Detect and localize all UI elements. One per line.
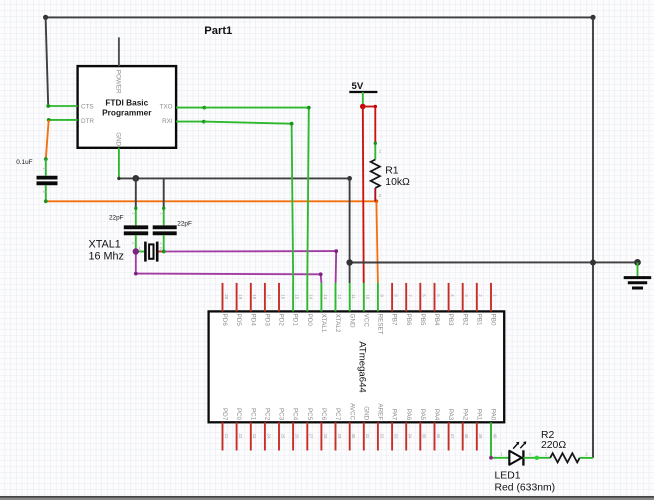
- svg-text:PB0: PB0: [490, 314, 497, 326]
- svg-text:16: 16: [280, 294, 285, 299]
- svg-text:PD0: PD0: [306, 314, 313, 327]
- pin 36 PA4 (bottom): [433, 409, 441, 451]
- pin 10 VCC (top): [362, 283, 370, 327]
- svg-text:PD3: PD3: [264, 314, 271, 327]
- svg-text:34: 34: [408, 434, 413, 439]
- pin 14 PD0 (top): [306, 283, 314, 326]
- wire orange DTR/RESET net rail: [44, 199, 378, 203]
- svg-text:PC6: PC6: [320, 408, 327, 421]
- capacitor C2 22pF: [124, 207, 148, 252]
- svg-text:ATmega644: ATmega644: [357, 341, 368, 393]
- svg-text:36: 36: [436, 434, 441, 439]
- label XTAL1 16 Mhz: [89, 239, 124, 263]
- wire LED1 to R2: [523, 456, 550, 460]
- pin GND leg: [118, 148, 120, 179]
- svg-text:PA2: PA2: [461, 409, 468, 421]
- svg-text:PD2: PD2: [278, 314, 285, 327]
- pin 6 PB5 (top): [419, 283, 427, 326]
- svg-text:PA3: PA3: [447, 409, 454, 421]
- svg-text:26: 26: [295, 434, 300, 439]
- pin 24 PC2 (bottom): [264, 408, 272, 451]
- svg-text:37: 37: [450, 434, 455, 439]
- svg-text:PB7: PB7: [391, 314, 398, 326]
- svg-text:31: 31: [365, 434, 370, 439]
- svg-text:10: 10: [365, 294, 370, 299]
- label LED1 Red (633nm): [495, 471, 556, 494]
- pin 39 PA1 (bottom): [475, 409, 483, 451]
- svg-text:PC4: PC4: [292, 408, 299, 421]
- pin 28 PC6 (bottom): [320, 408, 328, 451]
- pin 23 PC1 (bottom): [249, 408, 257, 451]
- svg-text:PA7: PA7: [391, 409, 398, 421]
- svg-text:PC3: PC3: [278, 408, 285, 421]
- pin 38 PA2 (bottom): [461, 409, 469, 451]
- wire crystal pin2 to XTAL2: [162, 249, 338, 283]
- pin 5 PB4 (top): [433, 283, 441, 326]
- svg-text:15: 15: [295, 294, 300, 299]
- svg-text:R1: R1: [385, 166, 399, 177]
- svg-text:22pF: 22pF: [109, 214, 124, 221]
- svg-text:19: 19: [238, 294, 243, 299]
- resistor R2 220: [545, 452, 589, 463]
- wire CTS vertical drop: [46, 17, 49, 106]
- svg-text:17: 17: [266, 294, 271, 299]
- pin 30 AVCC (bottom): [348, 403, 356, 450]
- pin 21 PD7 (bottom): [221, 408, 229, 451]
- IC U2 ATmega644: [209, 311, 505, 422]
- resistor R1 10k: [371, 142, 382, 202]
- pin 12 XTAL2 (top): [334, 283, 342, 333]
- svg-text:FTDI Basic: FTDI Basic: [105, 97, 148, 107]
- svg-text:18: 18: [252, 294, 257, 299]
- svg-text:35: 35: [422, 434, 427, 439]
- svg-text:XTAL2: XTAL2: [334, 314, 341, 333]
- svg-text:PD7: PD7: [221, 408, 228, 421]
- node 5V junction: [360, 104, 366, 110]
- svg-text:RESET: RESET: [377, 314, 384, 335]
- svg-text:10kΩ: 10kΩ: [385, 177, 410, 188]
- svg-text:33: 33: [394, 434, 399, 439]
- svg-text:PC1: PC1: [249, 408, 256, 421]
- svg-text:GND: GND: [115, 132, 122, 146]
- pin CTS leg: [46, 104, 77, 108]
- pin 17 PD3 (top): [264, 283, 272, 326]
- svg-text:PB4: PB4: [433, 314, 440, 326]
- pin 16 PD2 (top): [278, 283, 286, 326]
- svg-text:PB5: PB5: [419, 314, 426, 326]
- label R2 220: [541, 430, 566, 451]
- pin RXI leg: [176, 120, 206, 124]
- svg-text:XTAL1: XTAL1: [89, 239, 121, 251]
- pin 7 PB6 (top): [405, 283, 413, 326]
- pin 2 PB1 (top): [475, 283, 483, 326]
- pin 8 PB7 (top): [391, 283, 399, 326]
- svg-text:13: 13: [323, 294, 328, 299]
- pin 9 RESET (top): [377, 283, 385, 335]
- wire ground rail to ground symbol: [346, 259, 640, 266]
- svg-text:27: 27: [309, 434, 314, 439]
- svg-text:PC7: PC7: [334, 408, 341, 421]
- capacitor C3 22pF: [153, 207, 177, 252]
- label R1 10k: [385, 166, 410, 188]
- svg-text:CTS: CTS: [81, 104, 94, 111]
- wire TXO to PD0: [204, 106, 310, 283]
- svg-text:220Ω: 220Ω: [541, 440, 566, 451]
- pin 26 PC4 (bottom): [292, 408, 300, 451]
- svg-text:40: 40: [492, 434, 497, 439]
- svg-text:30: 30: [351, 434, 356, 439]
- svg-text:PA6: PA6: [405, 409, 412, 421]
- svg-text:PC2: PC2: [264, 408, 271, 421]
- svg-text:20: 20: [224, 294, 229, 299]
- svg-text:PD5: PD5: [235, 314, 242, 327]
- svg-text:DTR: DTR: [81, 118, 94, 125]
- scrollbar bottom: [0, 496, 654, 500]
- pin 32 AREF (bottom): [377, 403, 385, 450]
- svg-text:XTAL1: XTAL1: [320, 314, 327, 333]
- pin 25 PC3 (bottom): [278, 408, 286, 451]
- svg-text:AVCC: AVCC: [348, 403, 355, 420]
- svg-text:21: 21: [224, 434, 229, 439]
- wire gnd rail middle: [132, 175, 352, 182]
- wire DTR to C1: [44, 120, 49, 161]
- svg-text:PB6: PB6: [405, 314, 412, 326]
- svg-text:5V: 5V: [352, 81, 364, 92]
- svg-text:12: 12: [337, 294, 342, 299]
- svg-text:23: 23: [252, 434, 257, 439]
- svg-text:PB3: PB3: [447, 314, 454, 326]
- svg-text:PD4: PD4: [249, 314, 256, 327]
- svg-text:PA1: PA1: [475, 409, 482, 421]
- svg-text:GND: GND: [348, 314, 355, 328]
- pin 1 PB0 (top): [490, 283, 498, 326]
- pin 35 PA5 (bottom): [419, 409, 427, 451]
- svg-text:PD6: PD6: [221, 314, 228, 327]
- svg-text:29: 29: [337, 434, 342, 439]
- svg-text:14: 14: [309, 294, 314, 299]
- pin 27 PC5 (bottom): [306, 408, 314, 451]
- svg-text:16 Mhz: 16 Mhz: [89, 251, 124, 263]
- svg-text:0.1uF: 0.1uF: [16, 159, 32, 166]
- svg-text:Programmer: Programmer: [102, 108, 152, 118]
- pin 11 GND (top): [348, 283, 356, 328]
- pin TXO leg: [176, 106, 206, 110]
- wire FTDI GND to rail: [117, 177, 136, 180]
- svg-text:24: 24: [266, 434, 271, 439]
- svg-text:32: 32: [379, 434, 384, 439]
- wire RXI to PD1: [204, 122, 294, 283]
- pin 40 PA0 (bottom): [490, 409, 498, 451]
- wire crystal pin1 to XTAL1: [133, 248, 323, 283]
- svg-text:22: 22: [238, 434, 243, 439]
- wire gnd rail down to chip GND: [349, 178, 351, 283]
- wire cap C3 drop: [163, 178, 165, 208]
- pin 33 PA7 (bottom): [391, 409, 399, 451]
- svg-text:PB2: PB2: [461, 314, 468, 326]
- svg-text:POWER: POWER: [115, 70, 122, 94]
- wire 5V to VCC: [362, 107, 365, 284]
- pin 37 PA3 (bottom): [447, 409, 455, 451]
- svg-text:39: 39: [478, 434, 483, 439]
- svg-text:R2: R2: [541, 430, 555, 441]
- svg-text:38: 38: [464, 434, 469, 439]
- svg-text:22pF: 22pF: [177, 220, 192, 227]
- pin 29 PC7 (bottom): [334, 408, 342, 451]
- pin 13 XTAL1 (top): [320, 283, 328, 333]
- svg-text:PA5: PA5: [419, 409, 426, 421]
- op-amp U1 FTDI Basic Programmer: [78, 66, 177, 148]
- pin 31 GND (bottom): [362, 406, 370, 450]
- svg-text:TXO: TXO: [160, 104, 173, 111]
- svg-text:GND: GND: [362, 406, 369, 420]
- wire top ground rail: [43, 15, 596, 20]
- LED LED1 red: [500, 441, 532, 465]
- wire 5V to R1: [363, 105, 377, 143]
- svg-text:PD1: PD1: [292, 314, 299, 327]
- pin 20 PD6 (top): [221, 283, 229, 326]
- LED arrows: [513, 443, 518, 448]
- wire R2 to ground rail: [580, 457, 593, 459]
- ground symbol: [624, 262, 652, 288]
- pin 34 PA6 (bottom): [405, 409, 413, 451]
- wire PA0 to LED1: [489, 451, 509, 460]
- pin 22 PC0 (bottom): [235, 408, 243, 451]
- capacitor C1 0.1uF: [37, 159, 58, 201]
- svg-text:PC5: PC5: [306, 408, 313, 421]
- pin 18 PD4 (top): [249, 283, 257, 326]
- wire right vertical rail: [592, 17, 594, 458]
- pin 4 PB3 (top): [447, 283, 455, 326]
- svg-text:11: 11: [351, 294, 356, 299]
- svg-text:25: 25: [280, 434, 285, 439]
- wire orange to RESET pin: [376, 201, 378, 283]
- svg-text:VCC: VCC: [362, 314, 369, 328]
- svg-text:PC0: PC0: [235, 408, 242, 421]
- power +5V symbol: [349, 81, 377, 107]
- svg-text:RXI: RXI: [162, 118, 173, 125]
- svg-text:PA0: PA0: [490, 409, 497, 421]
- pin POWER leg: [118, 37, 120, 66]
- svg-text:LED1: LED1: [495, 471, 521, 482]
- svg-text:PA4: PA4: [433, 409, 440, 421]
- svg-text:AREF: AREF: [377, 403, 384, 420]
- pin 3 PB2 (top): [461, 283, 469, 326]
- pin 15 PD1 (top): [292, 283, 300, 326]
- svg-text:PB1: PB1: [475, 314, 482, 326]
- svg-text:28: 28: [323, 434, 328, 439]
- svg-text:Red (633nm): Red (633nm): [495, 483, 556, 494]
- pin 19 PD5 (top): [235, 283, 243, 326]
- svg-text:Part1: Part1: [204, 25, 232, 37]
- crystal Y1 XTAL1 16Mhz: [136, 242, 164, 262]
- wire cap C2 drop: [135, 178, 137, 208]
- pin DTR leg: [47, 118, 78, 122]
